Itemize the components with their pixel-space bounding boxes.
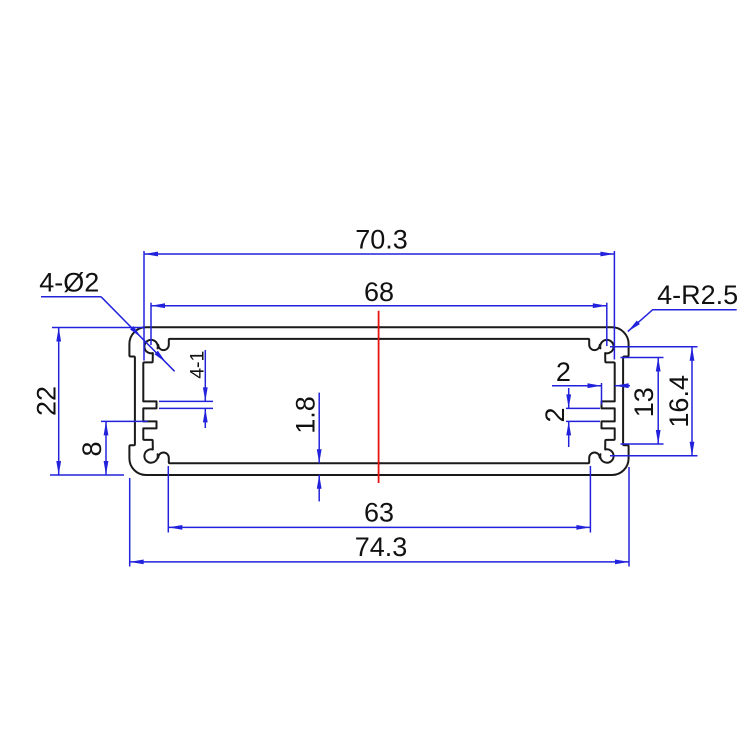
svg-text:4-Ø2: 4-Ø2 — [39, 268, 99, 298]
svg-text:4-1: 4-1 — [187, 351, 209, 379]
svg-text:4-R2.5: 4-R2.5 — [657, 280, 738, 310]
svg-text:13: 13 — [629, 387, 659, 417]
svg-text:74.3: 74.3 — [355, 532, 408, 562]
svg-text:1.8: 1.8 — [291, 396, 321, 434]
svg-text:70.3: 70.3 — [355, 225, 408, 255]
svg-text:22: 22 — [32, 386, 62, 416]
svg-text:2: 2 — [540, 407, 570, 422]
svg-text:68: 68 — [364, 277, 394, 307]
svg-text:16.4: 16.4 — [664, 375, 694, 428]
svg-text:8: 8 — [77, 441, 107, 456]
svg-text:63: 63 — [364, 498, 394, 528]
svg-text:2: 2 — [556, 357, 571, 387]
